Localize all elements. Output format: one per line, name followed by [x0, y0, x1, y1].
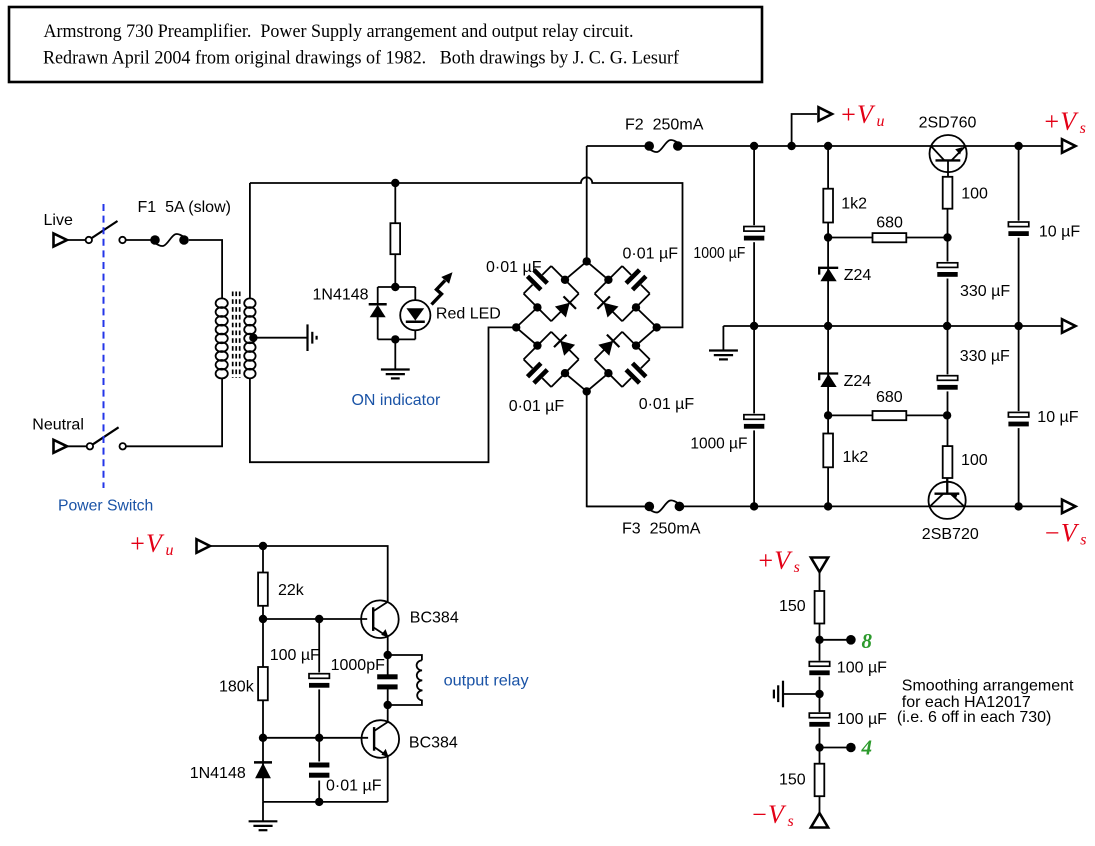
svg-text:680: 680: [876, 215, 903, 232]
zener Z24 upper: [819, 267, 871, 284]
wire smoothing column x=754 (top rail to bottom rail): [753, 146, 755, 506]
svg-text:1000 µF: 1000 µF: [693, 245, 745, 262]
svg-text:680: 680: [876, 389, 903, 406]
wire AC1: secondary top along y=183 to bridge right vertex (hops over +raw wire): [250, 177, 683, 327]
node junction 680/100/330 lower: [943, 411, 951, 419]
capacitor 100uF (smoothing upper): [809, 660, 887, 677]
node junction 1k2/680 upper: [824, 233, 832, 241]
svg-text:330 µF: 330 µF: [960, 348, 1010, 365]
wire switch to transformer primary bottom: [126, 378, 222, 446]
relay coil (output relay): [388, 655, 529, 705]
node junction 0.01uF top: [315, 734, 323, 742]
svg-text:2SB720: 2SB720: [922, 526, 979, 543]
svg-text:4: 4: [861, 736, 873, 760]
fuse F1: [138, 199, 232, 246]
LED D1 Red LED: [400, 272, 501, 330]
node +Vs output terminal (arrow): [1062, 139, 1076, 153]
node +Vs input terminal (smoothing, down arrow): [811, 558, 828, 573]
transformer T1 core: [233, 292, 240, 379]
node -Vs terminal (smoothing, up arrow): [811, 813, 828, 828]
resistor 100 lower: [943, 446, 988, 478]
transistor Q2 2SB720 (series pass, lower): [922, 478, 979, 544]
node pin 8 terminal: [846, 635, 856, 645]
wire 180k branch: [262, 619, 264, 738]
wire junction to BC384 lower base: [263, 737, 368, 739]
resistor 680 upper: [873, 215, 907, 243]
svg-text:100: 100: [961, 186, 988, 203]
wire regulator column x=828: [827, 146, 829, 506]
wire 0V middle rail: [723, 325, 1062, 327]
transistor Q4 BC384 (lower): [362, 720, 458, 758]
wire secondary top to AC1 rail: [249, 183, 251, 299]
wire 0V rail to ground: [722, 326, 724, 351]
wire pin 8 stub: [820, 639, 850, 641]
svg-text:2SD760: 2SD760: [919, 115, 977, 132]
wire relay node to BC384 lower collector: [387, 705, 389, 722]
wire BC384 upper emitter to relay node: [387, 637, 389, 655]
capacitor 1000uF lower: [690, 413, 764, 452]
node junction: indicator tap on AC1 wire: [391, 179, 399, 187]
node junction 10uF bottom column: [1014, 502, 1022, 510]
svg-text:Live: Live: [44, 212, 73, 229]
node junction 22k/180k/100uF: [259, 615, 267, 623]
node +Vu terminal (arrow): [819, 107, 833, 121]
svg-text:330 µF: 330 µF: [960, 283, 1010, 300]
capacitor 100uF (relay circuit): [270, 647, 330, 689]
wire indicator to ground: [394, 339, 396, 369]
node junction 1k2 bottom column: [824, 502, 832, 510]
capacitor 1000pF: [331, 655, 398, 705]
capacitor 0.01uF (relay circuit): [309, 762, 382, 795]
node junction 1k2/680 lower: [824, 411, 832, 419]
svg-text:0·01 µF: 0·01 µF: [639, 396, 695, 413]
ground (ON indicator): [381, 370, 410, 379]
resistor 180k: [219, 667, 268, 700]
svg-text:1000pF: 1000pF: [331, 657, 385, 674]
svg-text:output relay: output relay: [444, 673, 529, 690]
svg-text:180k: 180k: [219, 679, 255, 696]
wire 100uF branch: [318, 619, 320, 802]
bridge arm D3 bottom-left (diode + 0.01uF cap): [516, 327, 587, 391]
ground (transformer center tap): [308, 324, 317, 351]
svg-text:10 µF: 10 µF: [1037, 409, 1078, 426]
ground (0V rail): [709, 351, 738, 360]
capacitor 1000uF upper: [693, 225, 764, 262]
svg-text:Z24: Z24: [844, 267, 872, 284]
svg-text:BC384: BC384: [409, 735, 458, 752]
svg-text:F3 250mA: F3 250mA: [622, 521, 701, 538]
wire BC384 lower emitter to ground rail: [387, 757, 389, 802]
wire Neutral terminal to switch: [67, 445, 87, 447]
node bridge right vertex (AC1): [653, 323, 661, 331]
wire dropper resistor to indicator pair: [394, 254, 396, 287]
wire fuse F1 to transformer primary top: [189, 240, 222, 299]
node 0V output terminal (arrow): [1062, 319, 1076, 333]
title box: [9, 7, 762, 82]
bridge arm D1 top-left (diode + 0.01uF cap): [516, 261, 587, 327]
label smoothing note: [897, 678, 1074, 726]
ground (smoothing, sideways): [774, 681, 783, 708]
svg-text:8: 8: [862, 629, 873, 653]
node bridge top vertex (+raw): [583, 257, 591, 265]
resistor 1k2 upper: [823, 189, 867, 223]
fuse F2: [625, 117, 704, 154]
wire +Vu tap branch: [792, 114, 817, 146]
diode 1N4148 (relay circuit): [190, 762, 272, 782]
node junction 10uF top column: [1014, 142, 1022, 150]
svg-text:100 µF: 100 µF: [270, 647, 320, 664]
node junction relay/1000pF top: [384, 651, 392, 659]
node junction 680/100/330 upper: [943, 233, 951, 241]
node junction 0V / regulator column: [824, 322, 832, 330]
svg-text:Smoothing arrangement: Smoothing arrangement: [902, 678, 1074, 695]
node junction 0.01uF bottom: [315, 798, 323, 806]
capacitor 330uF upper: [937, 262, 1010, 301]
node bridge left vertex (AC2): [512, 323, 520, 331]
svg-text:0·01 µF: 0·01 µF: [326, 778, 382, 795]
svg-text:Z24: Z24: [844, 373, 872, 390]
capacitor 10uF lower: [1008, 409, 1078, 428]
svg-text:0·01 µF: 0·01 µF: [509, 398, 565, 415]
switch S1a (Live pole): [86, 221, 126, 243]
svg-text:F1 5A (slow): F1 5A (slow): [138, 199, 232, 216]
resistor 22k: [258, 573, 305, 606]
capacitor 10uF upper: [1008, 221, 1080, 241]
wire 680 upper connecting: [828, 237, 947, 239]
node Live (input terminal): [44, 212, 73, 247]
transformer T1 secondary winding: [244, 298, 255, 378]
node indicator top junction: [391, 283, 399, 291]
wire secondary bottom to bridge left vertex: [250, 327, 516, 462]
node junction 10uF upper / 0V: [1014, 322, 1022, 330]
svg-text:Armstrong 730 Preamplifier. P: Armstrong 730 Preamplifier. Power Supply…: [44, 21, 634, 42]
power switch gang line (dashed): [103, 204, 105, 488]
node junction 1000uF top column: [750, 142, 758, 150]
capacitor 100uF (smoothing lower): [809, 711, 887, 728]
wire output column x=1018.6: [1018, 146, 1020, 506]
fuse F3: [622, 499, 701, 537]
svg-text:F2 250mA: F2 250mA: [625, 117, 704, 134]
node junction 0V / emitter column: [943, 322, 951, 330]
node ground junction (smoothing): [815, 690, 823, 698]
resistor 150 upper: [779, 591, 824, 624]
bridge arm D4 bottom-right (diode + 0.01uF cap): [587, 327, 657, 391]
switch S1b (Neutral pole): [87, 427, 126, 449]
wire relay circuit ground rail: [263, 801, 388, 803]
wire Live terminal to switch: [67, 239, 86, 241]
resistor (LED dropper, unlabelled): [390, 223, 400, 254]
svg-text:Red LED: Red LED: [436, 306, 501, 323]
svg-text:Power Switch: Power Switch: [58, 498, 153, 515]
bridge arm D2 top-right (diode + 0.01uF cap): [587, 261, 657, 327]
wire 680 lower connecting: [828, 414, 947, 416]
capacitor 330uF lower: [937, 348, 1010, 391]
wire 22k tap down: [262, 546, 264, 619]
node pin 4 junction: [815, 743, 823, 751]
svg-text:1k2: 1k2: [843, 449, 869, 466]
svg-text:(i.e. 6 off in each 730): (i.e. 6 off in each 730): [897, 709, 1051, 726]
svg-text:100 µF: 100 µF: [837, 711, 887, 728]
svg-text:1k2: 1k2: [841, 196, 867, 213]
wire +Vu terminal to BC384 collector: [210, 546, 388, 602]
wire -Vs bottom rail (y=506.4): [587, 505, 1062, 507]
wire indicator parallel loop: [378, 287, 416, 339]
svg-text:100: 100: [961, 452, 988, 469]
svg-text:BC384: BC384: [410, 610, 459, 627]
wire bridge bottom vertex down to -raw rail: [587, 391, 650, 506]
svg-text:150: 150: [779, 772, 806, 789]
node indicator bottom junction: [391, 335, 399, 343]
wire ground stub (smoothing): [784, 693, 820, 695]
wire tap down to dropper resistor: [394, 183, 396, 224]
resistor 1k2 lower: [823, 434, 868, 468]
ground (relay circuit): [249, 821, 278, 830]
node pin 8 junction: [815, 636, 823, 644]
transistor Q1 2SD760 (series pass, upper): [919, 115, 977, 178]
svg-text:150: 150: [779, 598, 806, 615]
node junction relay/1000pF bottom: [384, 701, 392, 709]
node junction 180k/1N4148/base lower: [259, 734, 267, 742]
svg-text:100 µF: 100 µF: [837, 660, 887, 677]
node junction 1000uF bottom column: [750, 502, 758, 510]
transistor Q3 BC384 (upper): [361, 600, 459, 638]
node junction +Vu tap: [787, 142, 795, 150]
svg-text:0·01 µF: 0·01 µF: [623, 246, 679, 263]
svg-text:10 µF: 10 µF: [1039, 224, 1080, 241]
diode 1N4148 (reverse protection): [313, 287, 387, 321]
node Neutral (input terminal): [32, 417, 84, 453]
wire smoothing column: [819, 572, 821, 813]
node bridge bottom vertex (-raw): [583, 387, 591, 395]
wire bridge top vertex up to +raw rail: [586, 146, 588, 261]
zener Z24 lower: [819, 373, 871, 390]
resistor 150 lower: [779, 764, 824, 797]
wire junction to BC384 upper base: [263, 618, 367, 620]
node center tap: [249, 334, 257, 342]
svg-text:0·01 µF: 0·01 µF: [486, 259, 542, 276]
resistor 680 lower: [873, 389, 907, 420]
wire center tap to chassis ground: [253, 337, 306, 339]
svg-text:22k: 22k: [278, 582, 305, 599]
node junction 100uF top: [315, 615, 323, 623]
wire ground stem: [262, 802, 264, 821]
wire pin 4 stub: [820, 747, 850, 749]
node +Vu input terminal (relay circuit, arrow): [197, 539, 211, 553]
node junction 1000uF upper / 0V: [750, 322, 758, 330]
wire +Vu top rail (y=146): [587, 145, 1062, 147]
svg-text:1000 µF: 1000 µF: [690, 435, 747, 452]
wire emitter column x=947.5: [947, 177, 949, 494]
node pin 4 terminal: [846, 743, 856, 753]
svg-text:1N4148: 1N4148: [190, 765, 246, 782]
node junction 22k tap: [259, 542, 267, 550]
transformer T1 primary winding: [216, 298, 228, 378]
svg-text:Redrawn April 2004 from origin: Redrawn April 2004 from original drawing…: [43, 48, 680, 69]
resistor 100 upper: [943, 177, 988, 209]
node junction 1k2 top column: [824, 142, 832, 150]
svg-text:1N4148: 1N4148: [313, 287, 369, 304]
svg-text:Neutral: Neutral: [32, 417, 84, 434]
svg-text:ON indicator: ON indicator: [352, 392, 441, 409]
node -Vs output terminal (arrow): [1062, 500, 1076, 514]
wire 1N4148 branch: [262, 738, 264, 802]
wire switch to fuse F1: [126, 239, 155, 241]
